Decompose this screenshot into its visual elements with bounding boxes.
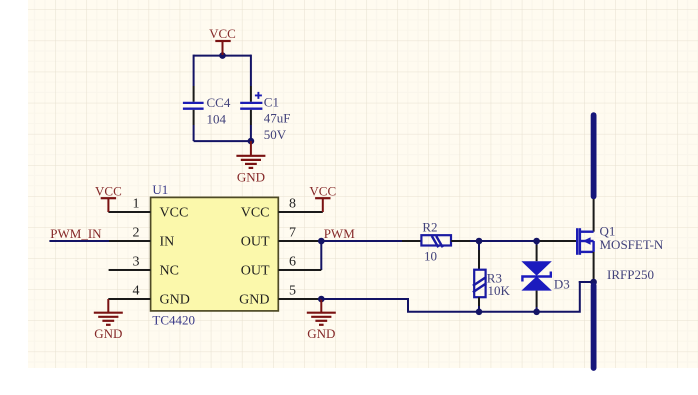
pin 6 stub — [278, 269, 321, 271]
svg-text:GND: GND — [160, 293, 190, 308]
wire pin7 to R2 — [321, 240, 402, 242]
wire drain (thick) — [591, 115, 597, 196]
wire R3 bottom lead — [478, 306, 480, 312]
svg-text:OUT: OUT — [241, 264, 270, 279]
pin R2 left — [402, 240, 422, 242]
pin D3 bottom — [536, 291, 538, 307]
junction dot D3 bottom — [533, 309, 540, 316]
wire C1 bottom lead — [250, 110, 252, 125]
wire drain pin — [593, 199, 595, 232]
ground GND (caps) — [236, 141, 265, 184]
ground GND (pin4) — [94, 299, 123, 341]
svg-text:VCC: VCC — [209, 26, 236, 41]
diode D3 (bidirectional TVS) — [521, 261, 551, 290]
svg-text:D3: D3 — [554, 277, 570, 292]
ground GND (pin5) — [307, 299, 336, 341]
svg-text:R2: R2 — [422, 220, 437, 235]
pin 1 stub — [108, 211, 150, 213]
svg-text:TC4420: TC4420 — [152, 312, 195, 327]
resistor R2 — [421, 235, 451, 247]
junction dot R3 top — [476, 238, 483, 245]
svg-text:4: 4 — [133, 284, 140, 299]
junction dot pin7 node — [318, 238, 325, 245]
pin 5 stub — [278, 298, 321, 300]
svg-text:5: 5 — [289, 284, 296, 299]
wire caps bottom rail — [194, 140, 251, 142]
svg-text:8: 8 — [289, 197, 296, 212]
capacitor C1 (polarized) — [240, 92, 262, 109]
wire gate pin segment — [537, 240, 577, 242]
IC U1 TC4420 body — [151, 197, 279, 311]
resistor R3 — [473, 270, 486, 298]
svg-text:IN: IN — [160, 235, 175, 250]
pin 2 stub — [109, 240, 151, 242]
pin 3 stub — [109, 269, 151, 271]
junction dot D3 top — [533, 238, 540, 245]
junction dot pin5 node — [318, 296, 325, 303]
wire R3 top lead — [478, 241, 480, 250]
pin R3 bottom — [478, 297, 480, 306]
svg-text:VCC: VCC — [309, 183, 336, 198]
pin R2 right — [451, 240, 470, 242]
power port VCC (top) — [209, 26, 236, 55]
wire source junction link — [579, 281, 594, 283]
wire source (thick) — [591, 286, 597, 369]
svg-text:47uF: 47uF — [264, 111, 291, 126]
svg-text:GND: GND — [237, 170, 265, 185]
pin 7 stub — [278, 240, 321, 242]
wire CC4 bottom lead — [193, 110, 195, 125]
svg-text:NC: NC — [160, 264, 179, 279]
svg-text:10K: 10K — [488, 283, 511, 298]
wire ground rail (pin5 to lower rail) — [321, 281, 580, 312]
capacitor CC4 — [183, 103, 204, 109]
wire PWM_IN net — [49, 240, 109, 242]
svg-text:OUT: OUT — [241, 235, 270, 250]
svg-text:10: 10 — [424, 249, 437, 264]
wire D3 top lead — [536, 241, 538, 245]
wire CC4 top lead — [193, 55, 195, 86]
svg-text:CC4: CC4 — [207, 95, 231, 110]
transistor Q1 MOSFET-N — [577, 228, 593, 255]
svg-text:MOSFET-N: MOSFET-N — [600, 237, 664, 252]
svg-text:1: 1 — [133, 197, 140, 212]
wire D3 bottom lead — [536, 307, 538, 312]
svg-text:GND: GND — [307, 326, 335, 341]
pin 8 stub — [278, 211, 323, 213]
svg-text:PWM_IN: PWM_IN — [50, 226, 102, 241]
svg-text:GND: GND — [239, 293, 269, 308]
svg-text:6: 6 — [289, 255, 296, 270]
svg-text:IRFP250: IRFP250 — [607, 267, 654, 282]
wire VCC rail to caps (horizontal) — [194, 55, 251, 57]
pin R3 top — [478, 250, 480, 270]
wire C1 top lead — [250, 55, 252, 86]
svg-text:C1: C1 — [264, 95, 279, 110]
junction dot R3 bottom — [476, 309, 483, 316]
power port VCC (pin8) — [309, 183, 336, 212]
junction dot source node — [590, 279, 597, 286]
junction dot at VCC/caps node — [219, 52, 226, 59]
wire R2 to gate node — [470, 240, 537, 242]
pin 4 stub — [108, 298, 150, 300]
svg-text:7: 7 — [289, 226, 296, 241]
svg-text:VCC: VCC — [95, 183, 122, 198]
wire pin6 to pin7 net (vertical) — [320, 241, 322, 270]
svg-text:104: 104 — [207, 112, 227, 127]
svg-text:U1: U1 — [152, 182, 168, 197]
svg-text:VCC: VCC — [160, 206, 189, 221]
svg-text:50V: 50V — [264, 127, 287, 142]
junction dot at caps/GND node — [248, 138, 255, 145]
power port VCC (pin1) — [95, 183, 122, 212]
pin D3 top — [536, 245, 538, 261]
svg-text:3: 3 — [133, 255, 140, 270]
svg-text:GND: GND — [94, 326, 122, 341]
wire source pin — [593, 252, 595, 282]
svg-text:PWM: PWM — [324, 226, 356, 241]
svg-text:2: 2 — [133, 226, 140, 241]
svg-text:VCC: VCC — [241, 206, 270, 221]
